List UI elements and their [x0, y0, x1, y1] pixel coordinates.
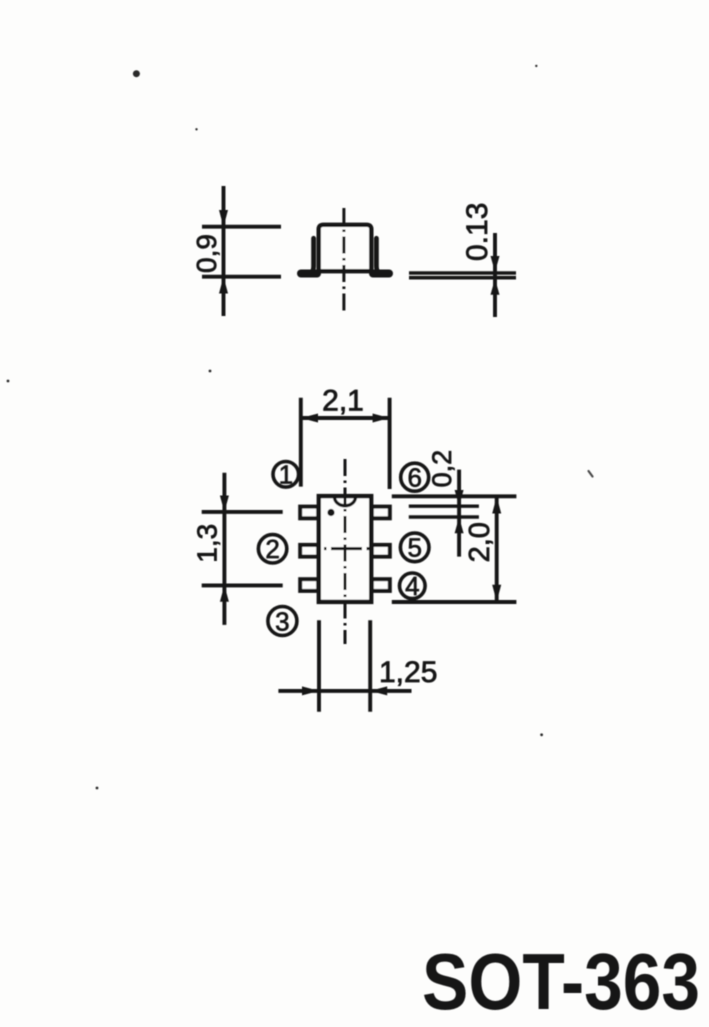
svg-text:4: 4 — [405, 571, 419, 601]
svg-text:3: 3 — [275, 606, 289, 636]
svg-text:2: 2 — [265, 534, 279, 564]
svg-text:1,25: 1,25 — [379, 656, 437, 689]
svg-text:2,1: 2,1 — [322, 385, 364, 418]
svg-text:0,9: 0,9 — [191, 234, 222, 273]
svg-text:6: 6 — [407, 463, 421, 493]
svg-text:0,2: 0,2 — [427, 450, 457, 488]
svg-text:1,3: 1,3 — [192, 524, 223, 563]
svg-text:2,0: 2,0 — [464, 522, 496, 562]
svg-text:1: 1 — [279, 460, 293, 490]
svg-text:SOT-363: SOT-363 — [422, 937, 700, 1026]
svg-text:0.13: 0.13 — [461, 203, 494, 261]
svg-text:5: 5 — [407, 533, 421, 563]
